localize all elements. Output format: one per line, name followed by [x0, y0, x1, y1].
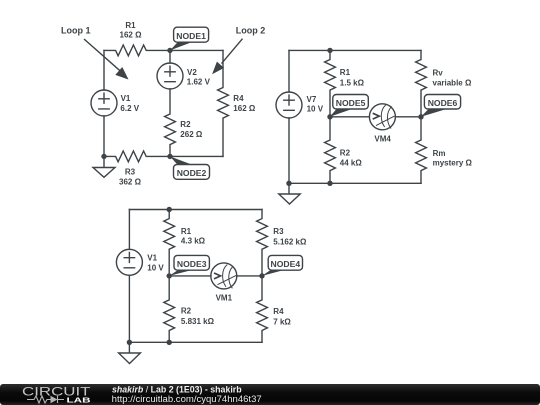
svg-text:V7: V7 — [307, 95, 317, 104]
svg-text:V1: V1 — [147, 254, 157, 263]
svg-text:R2: R2 — [180, 120, 191, 129]
svg-text:http://circuitlab.com/cyqu74hn: http://circuitlab.com/cyqu74hn46t37 — [112, 394, 262, 404]
svg-text:Rv: Rv — [433, 68, 444, 77]
svg-text:R4: R4 — [233, 94, 244, 103]
svg-text:NODE2: NODE2 — [177, 168, 207, 178]
svg-text:R3: R3 — [273, 227, 284, 236]
svg-text:5.831 kΩ: 5.831 kΩ — [181, 317, 215, 326]
svg-text:10 V: 10 V — [307, 104, 324, 113]
svg-text:V1: V1 — [121, 94, 131, 103]
svg-text:1.5 kΩ: 1.5 kΩ — [340, 78, 365, 87]
svg-text:mystery Ω: mystery Ω — [433, 159, 473, 168]
svg-text:R2: R2 — [340, 148, 351, 157]
svg-text:362 Ω: 362 Ω — [119, 177, 142, 186]
svg-text:262 Ω: 262 Ω — [180, 130, 203, 139]
svg-text:NODE5: NODE5 — [336, 98, 366, 108]
svg-text:V2: V2 — [187, 68, 197, 77]
svg-text:VM1: VM1 — [216, 293, 233, 302]
svg-text:44 kΩ: 44 kΩ — [340, 158, 363, 167]
svg-text:Rm: Rm — [433, 149, 446, 158]
svg-text:4.3 kΩ: 4.3 kΩ — [181, 237, 206, 246]
svg-text:NODE1: NODE1 — [176, 31, 206, 41]
svg-text:NODE6: NODE6 — [428, 98, 458, 108]
svg-text:162 Ω: 162 Ω — [233, 104, 256, 113]
svg-text:R4: R4 — [273, 307, 284, 316]
svg-text:6.2 V: 6.2 V — [120, 104, 139, 113]
svg-text:R1: R1 — [181, 227, 192, 236]
svg-text:R1: R1 — [125, 21, 136, 30]
svg-text:R3: R3 — [125, 167, 136, 176]
svg-text:NODE3: NODE3 — [177, 259, 207, 269]
svg-text:162 Ω: 162 Ω — [120, 31, 143, 40]
svg-text:Loop 1: Loop 1 — [61, 25, 91, 35]
svg-text:VM4: VM4 — [374, 134, 391, 143]
svg-text:R1: R1 — [340, 68, 351, 77]
svg-text:Loop 2: Loop 2 — [236, 25, 266, 35]
svg-text:LAB: LAB — [67, 395, 92, 404]
svg-text:R2: R2 — [181, 307, 192, 316]
svg-text:7 kΩ: 7 kΩ — [273, 317, 291, 326]
svg-text:5.162 kΩ: 5.162 kΩ — [273, 237, 307, 246]
svg-text:NODE4: NODE4 — [270, 259, 300, 269]
svg-text:10 V: 10 V — [147, 264, 164, 273]
svg-text:variable Ω: variable Ω — [433, 79, 472, 88]
svg-text:1.62 V: 1.62 V — [187, 78, 211, 87]
